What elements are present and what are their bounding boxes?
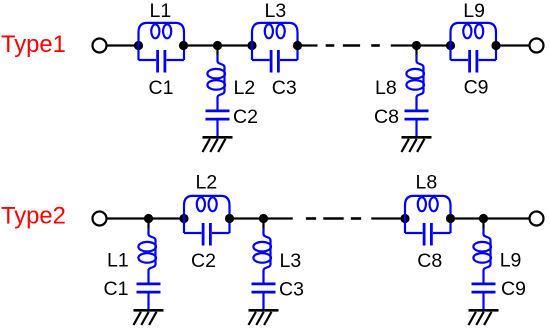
svg-text:L2: L2 [196,172,218,194]
svg-text:Type1: Type1 [1,31,66,58]
svg-text:C1: C1 [104,278,129,300]
svg-text:C2: C2 [191,250,216,272]
ground [249,310,279,325]
wire dash 1 (Type2) [306,217,316,220]
svg-text:L8: L8 [375,77,397,99]
wire stub of L9 [482,219,484,229]
node G [446,41,455,50]
inductor L9 [451,23,497,60]
wire stub of L8 [415,46,417,56]
node Q [479,214,488,223]
inductor L1 [138,228,156,283]
node I [144,214,153,223]
terminal output (Type1) [530,39,544,53]
svg-text:Type2: Type2 [1,203,66,230]
wire B to D through C [184,44,253,46]
ground [134,310,164,325]
svg-text:C2: C2 [233,106,258,128]
svg-text:C3: C3 [272,77,297,99]
node P [446,214,455,223]
node M [259,214,268,223]
inductor L8 [405,196,451,233]
inductor L1 [139,23,185,60]
capacitor C9 [451,50,497,73]
wire dash 2 (Type2) [323,217,343,220]
svg-text:L3: L3 [280,250,302,272]
svg-text:L9: L9 [500,249,522,271]
svg-text:C9: C9 [501,278,526,300]
node E [293,41,302,50]
wire dash 2 (Type1) [343,44,360,47]
svg-text:L1: L1 [107,249,129,271]
inductor L3 [253,228,271,283]
svg-text:L8: L8 [416,172,438,194]
svg-text:C8: C8 [374,106,399,128]
capacitor C8 [405,111,429,137]
wire Q to output [484,217,530,219]
terminal input (Type2) [93,212,107,226]
svg-text:C3: C3 [279,278,304,300]
wire input to node A [107,44,140,46]
wire dashed break to node N [371,217,405,219]
capacitor C3 [252,284,276,310]
capacitor C1 [139,50,185,73]
wire stub of L3 [262,219,264,229]
ground [203,137,233,152]
svg-text:C9: C9 [464,77,489,99]
wire dash 1 (Type1) [326,44,335,47]
svg-text:L9: L9 [463,0,485,22]
svg-text:L1: L1 [150,0,172,22]
node N [400,214,409,223]
wire E to dashed break [298,44,318,46]
wire dashed break to node F [391,44,417,46]
inductor L2 [184,196,230,233]
inductor L2 [207,55,225,110]
node K [225,214,234,223]
node F [412,41,421,50]
svg-text:C1: C1 [149,77,174,99]
capacitor C9 [472,284,496,310]
svg-text:L2: L2 [234,77,256,99]
capacitor C8 [405,223,451,246]
wire stub of L2 [216,46,218,56]
wire stub of L1 [147,219,149,229]
ground [402,137,432,152]
wire dash 3 (Type2) [351,217,361,220]
node A [134,41,143,50]
wire H to output [496,44,530,46]
node B [179,41,188,50]
inductor L8 [406,55,424,110]
wire N... P to Q [451,217,484,219]
terminal output (Type2) [530,212,544,226]
capacitor C1 [137,284,161,310]
wire F to G [417,44,451,46]
svg-text:C8: C8 [417,250,442,272]
capacitor C2 [206,111,230,137]
inductor L9 [473,228,491,283]
ground [469,310,499,325]
node D [247,41,256,50]
wire dash 3 (Type1) [371,44,380,47]
wire input to node J through I [107,217,185,219]
node J [179,214,188,223]
terminal input (Type1) [93,39,107,53]
capacitor C3 [252,50,298,73]
svg-text:L3: L3 [265,0,287,22]
wire K to dashed break through M [230,217,293,219]
inductor L3 [252,23,298,60]
node C [213,41,222,50]
capacitor C2 [184,223,230,246]
node H [491,41,500,50]
